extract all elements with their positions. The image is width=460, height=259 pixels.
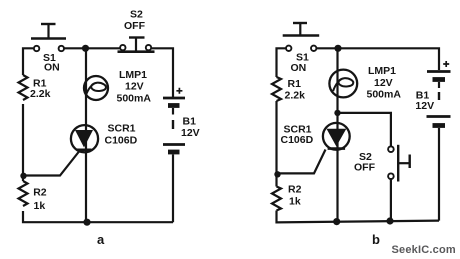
svg-text:1k: 1k (289, 196, 301, 208)
switch S2 (circuit b) pushbutton OFF vertical (388, 145, 410, 182)
wire: a rail S2 to battery corner (152, 48, 173, 97)
node: gate junction (a) (20, 173, 26, 179)
wire: a left vertical R1 to R2 (22, 104, 24, 181)
svg-text:B1: B1 (183, 116, 197, 128)
svg-text:R2: R2 (288, 184, 302, 196)
wire: b rail S1 to battery corner (317, 48, 439, 70)
svg-text:LMP1: LMP1 (119, 69, 147, 81)
svg-text:500mA: 500mA (367, 89, 402, 101)
label + battery (b) (443, 61, 449, 67)
svg-text:SCR1: SCR1 (108, 123, 136, 135)
svg-text:1k: 1k (34, 200, 46, 212)
svg-text:ON: ON (44, 62, 60, 74)
svg-text:2.2k: 2.2k (30, 88, 51, 100)
switch S1 (circuit b) pushbutton ON (283, 23, 320, 51)
svg-text:C106D: C106D (105, 135, 138, 147)
label + battery (a) (176, 88, 182, 94)
resistor R1 (b) (272, 77, 281, 101)
svg-text:R1: R1 (288, 78, 302, 90)
svg-text:OFF: OFF (124, 20, 146, 32)
wire: b lamp junction to S2 branch (338, 113, 391, 146)
SCR1 (circuit a) thyristor (25, 125, 98, 175)
lamp LMP1 (circuit b) (329, 70, 357, 98)
resistor R1 (a) (19, 75, 28, 100)
svg-text:R2: R2 (33, 187, 47, 199)
resistor R2 (b) (272, 187, 281, 211)
node: b bottom junction at SCR (333, 218, 340, 225)
wire: a bottom rail (23, 211, 173, 222)
svg-text:2.2k: 2.2k (285, 90, 306, 102)
svg-text:12V: 12V (415, 100, 434, 112)
svg-text:ON: ON (291, 62, 307, 74)
svg-text:OFF: OFF (354, 162, 376, 174)
svg-text:a: a (97, 232, 105, 247)
lamp LMP1 (circuit a) (84, 76, 108, 100)
svg-text:500mA: 500mA (117, 93, 152, 105)
node: junction below lamp (b) (334, 110, 340, 116)
node: gate junction (b) (274, 171, 280, 177)
wire: circuit a top-left corner + rail to S1 (23, 48, 33, 75)
svg-text:S2: S2 (130, 9, 143, 21)
wire: b S2 to bottom rail (390, 179, 392, 221)
node: bottom junction (a) (83, 219, 90, 226)
SCR1 (circuit b) thyristor (278, 123, 350, 173)
battery B1 (circuit a) (163, 98, 185, 222)
battery B1 (circuit b) (427, 72, 451, 221)
switch S2 (circuit a) pushbutton OFF (118, 38, 155, 52)
node: junction lamp branch (b) (334, 45, 341, 52)
wire: a rail S1 to S2 (64, 47, 119, 49)
resistor R2 (a) (19, 181, 28, 206)
switch S1 (circuit a) pushbutton ON (31, 24, 66, 51)
wire: b left vertical R1 to R2 (275, 101, 277, 187)
svg-text:SeekIC.com: SeekIC.com (392, 244, 456, 256)
wire: b lamp/SCR branch vertical (336, 48, 338, 221)
svg-text:b: b (372, 232, 380, 247)
wire: circuit b top-left corner + rail to S1 (277, 48, 286, 77)
svg-text:C106D: C106D (281, 134, 314, 146)
wire: a lamp/SCR branch vertical (85, 48, 87, 222)
node: junction lamp branch (a) (82, 45, 89, 52)
node: b bottom junction at S2 (386, 217, 393, 224)
svg-text:12V: 12V (181, 127, 200, 139)
svg-text:12V: 12V (374, 77, 393, 89)
svg-text:LMP1: LMP1 (368, 65, 396, 77)
wire: b bottom rail (277, 211, 440, 223)
svg-text:12V: 12V (125, 81, 144, 93)
